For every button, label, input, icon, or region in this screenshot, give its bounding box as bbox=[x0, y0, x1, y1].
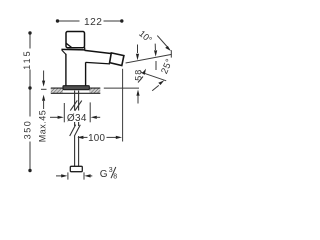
deck right hatched strip bbox=[89, 88, 100, 93]
dimension 100 extension line from spout tip bbox=[122, 69, 124, 142]
angle line 10deg (upper jet line) bbox=[126, 54, 172, 63]
dimension 350 bottom dot bbox=[28, 169, 31, 172]
dimension 122 right dot bbox=[120, 19, 123, 22]
angle 25deg upper arrow bbox=[138, 77, 143, 83]
angle 10deg slanted arrow at vertex bbox=[157, 36, 167, 47]
dimension O34 left arrow shaft bbox=[50, 116, 59, 118]
end nut bbox=[70, 166, 82, 171]
body right edge above spout bbox=[84, 47, 86, 50]
dimension 100 left arrowhead at rod bbox=[77, 136, 83, 139]
angle 25deg lower arrow bbox=[152, 85, 159, 90]
dimension 58 bottom arrow shaft bbox=[137, 96, 139, 104]
svg-text:115: 115 bbox=[22, 49, 32, 69]
body top lip bbox=[61, 48, 84, 51]
aerator end piece bbox=[110, 53, 124, 66]
svg-text:Max.45: Max.45 bbox=[38, 110, 48, 143]
svg-text:8: 8 bbox=[113, 174, 117, 181]
G3/8 right arrow shaft bbox=[90, 175, 92, 177]
dimension 58 top arrowhead bbox=[136, 54, 139, 60]
dimension 115 line segments bbox=[29, 33, 31, 49]
base flange bbox=[63, 86, 89, 90]
rod break stroke upper 1 bbox=[70, 100, 77, 110]
svg-text:Ø34: Ø34 bbox=[67, 113, 87, 124]
svg-text:350: 350 bbox=[23, 120, 33, 140]
svg-text:122: 122 bbox=[84, 17, 103, 28]
deck left hatched strip bbox=[51, 88, 63, 93]
deck bottom line bbox=[51, 92, 101, 94]
rod break stroke upper 2 bbox=[75, 101, 82, 111]
deck top line bbox=[51, 87, 101, 89]
G3/8 right arrowhead bbox=[84, 174, 90, 177]
body left edge bbox=[65, 54, 67, 86]
angle vertex tick right bbox=[170, 50, 172, 57]
svg-text:10°: 10° bbox=[137, 28, 154, 45]
G3/8 left tick bbox=[67, 172, 69, 179]
angle vertex tick middle bbox=[155, 61, 157, 70]
G3/8 right tick bbox=[83, 172, 85, 179]
dimension Max.45 surface tick bbox=[41, 88, 47, 90]
dimension O34 left extension line bbox=[63, 103, 65, 122]
dimension 100 left shaft bbox=[83, 136, 88, 138]
angle line 25deg (lower jet line) bbox=[140, 72, 166, 81]
svg-text:25°: 25° bbox=[158, 57, 174, 76]
body right edge below spout bbox=[85, 62, 87, 86]
angle 10deg arrow (vertical, onto line) bbox=[154, 44, 156, 50]
dimension 115 top dot bbox=[28, 31, 31, 34]
dimension 350 line segments bbox=[29, 89, 31, 117]
dimension Max.45 lower arrowhead bbox=[42, 95, 45, 101]
rod break stroke lower 1 bbox=[70, 125, 76, 136]
svg-text:100: 100 bbox=[88, 133, 105, 144]
svg-text:3: 3 bbox=[109, 167, 113, 174]
dimension O34 right arrow shaft bbox=[96, 116, 100, 118]
spout bottom edge bbox=[86, 62, 110, 64]
dimension Max.45 lower arrow shaft bbox=[43, 101, 45, 109]
supply rod right edge bbox=[78, 91, 80, 111]
dimension O34 left arrowhead bbox=[58, 116, 64, 119]
G3/8 left arrowhead bbox=[61, 174, 67, 177]
dimension Max.45 upper arrowhead bbox=[42, 81, 45, 87]
rod break stroke lower 2 bbox=[74, 125, 80, 136]
svg-text:58: 58 bbox=[134, 69, 144, 81]
dimension 122 line left segment bbox=[57, 20, 80, 22]
dimension 100 right shaft bbox=[107, 136, 118, 138]
dimension 100 right arrowhead bbox=[116, 136, 122, 139]
dimension O34 right arrowhead bbox=[91, 116, 97, 119]
supply rod left edge bbox=[74, 91, 76, 111]
dimension O34 right extension line bbox=[89, 102, 91, 122]
body lip chamfer bbox=[62, 50, 66, 54]
svg-text:G: G bbox=[100, 169, 108, 180]
dimension 122 left dot bbox=[56, 19, 59, 22]
faucet handle bbox=[66, 32, 85, 48]
dimension 122 line right segment bbox=[104, 20, 122, 22]
dimension Max.45 upper arrow shaft bbox=[43, 71, 45, 82]
G3/8 left arrow shaft bbox=[56, 175, 62, 177]
spout top edge bbox=[85, 50, 112, 53]
deck surface extension line for 58 bbox=[104, 87, 139, 89]
handle bottom-left cut bbox=[66, 43, 72, 47]
dimension 350 shared dot bbox=[28, 86, 31, 89]
dimension 58 bottom arrowhead bbox=[136, 90, 139, 96]
dimension 58 top arrow shaft bbox=[137, 45, 139, 54]
